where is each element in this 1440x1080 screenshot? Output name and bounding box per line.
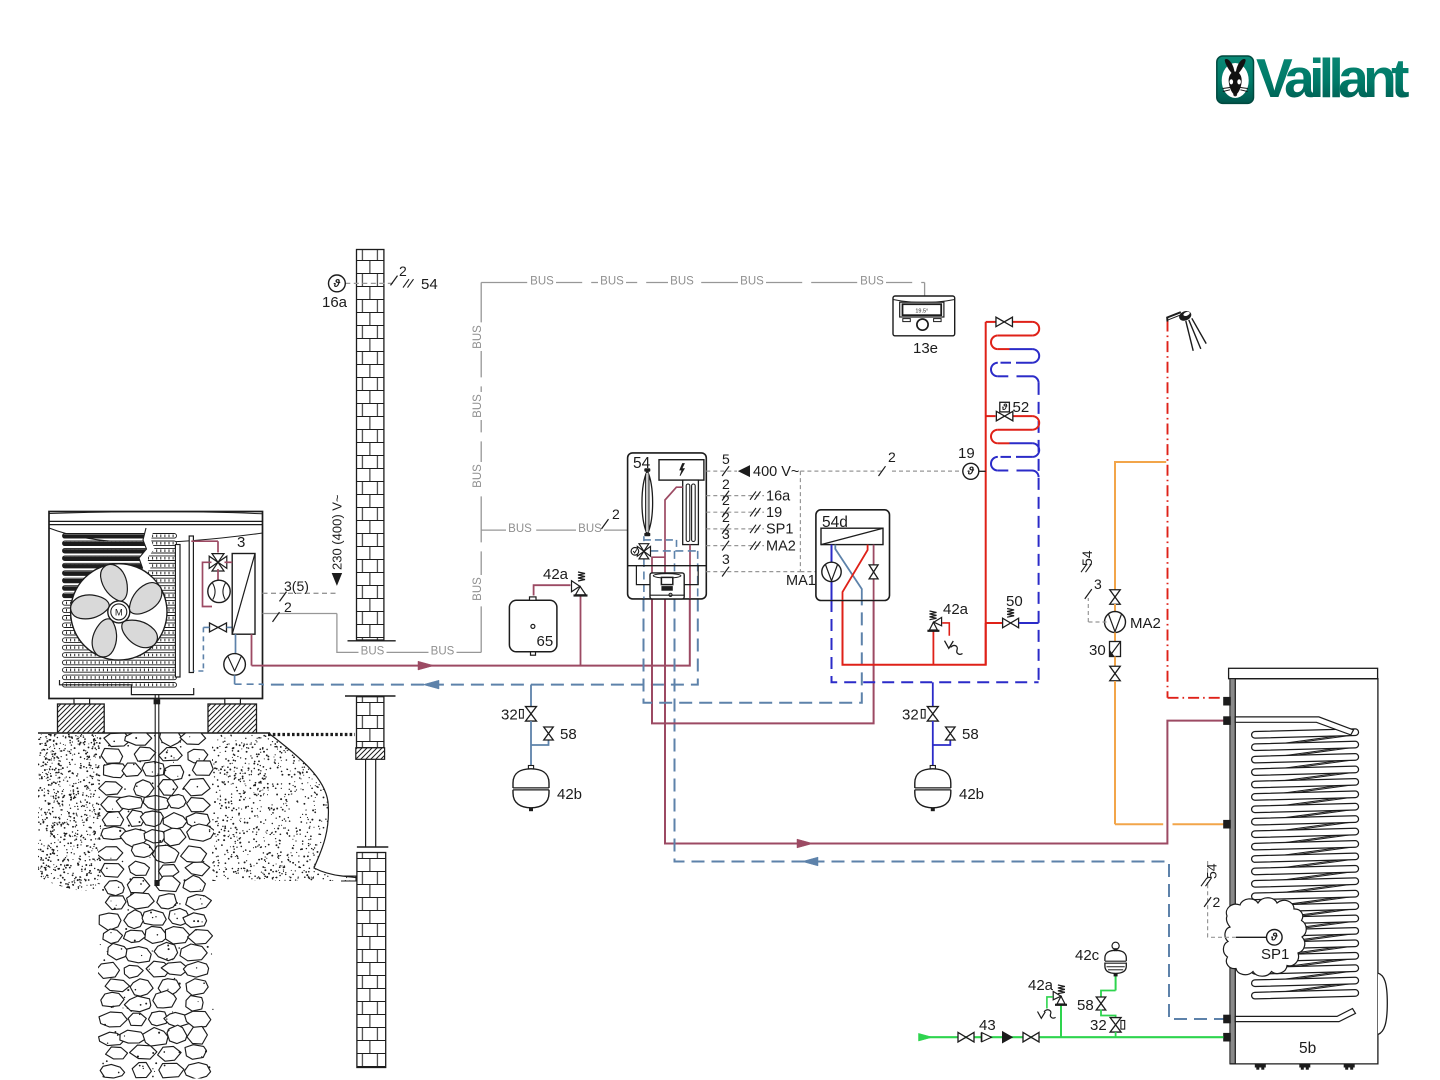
maintenance valve 32 xyxy=(932,682,934,707)
unit feet xyxy=(74,699,90,705)
dirt filter 30 xyxy=(1110,642,1121,657)
safety valve 42a (bottom) xyxy=(1060,1006,1062,1038)
dotted earth strip between heat pump and wall xyxy=(268,733,355,736)
svg-text:3: 3 xyxy=(237,534,245,551)
outdoor temp sensor 16a xyxy=(345,282,395,284)
drain valve 58 xyxy=(531,741,549,746)
shower head xyxy=(1167,312,1181,321)
expansion vessel lens xyxy=(642,471,653,535)
brick wall upper section xyxy=(357,250,384,641)
maintenance valve 32 xyxy=(530,685,532,707)
return from DHW tank (steel dashed long line) xyxy=(675,599,1225,1020)
check valve xyxy=(981,1033,983,1043)
svg-text:MA2: MA2 xyxy=(766,538,796,554)
BUS branch to unit 54 xyxy=(481,529,627,531)
electric heater box with bolt xyxy=(659,460,704,480)
BUS vertical trunk xyxy=(480,283,482,653)
svg-text:ϑ: ϑ xyxy=(967,466,975,478)
svg-text:58: 58 xyxy=(1077,997,1094,1014)
svg-text:42a: 42a xyxy=(1028,977,1054,994)
brick foundation wall below ground xyxy=(357,853,386,1068)
svg-text:BUS: BUS xyxy=(472,325,484,349)
refrigerant circuit inside unit xyxy=(191,540,218,542)
expansion vessel 42b xyxy=(932,745,934,766)
maintenance valve 32 (bottom) xyxy=(1110,1018,1121,1025)
svg-text:BUS: BUS xyxy=(860,276,884,288)
svg-text:MA1: MA1 xyxy=(786,573,816,589)
steel dashed internal piping 54 xyxy=(643,536,645,543)
safety valve 42a (right) xyxy=(932,632,934,665)
flow to DHW tank (maroon long line) xyxy=(665,599,1224,844)
valve in 54d xyxy=(869,565,878,572)
svg-text:58: 58 xyxy=(560,726,577,743)
svg-text:30: 30 xyxy=(1089,642,1106,659)
230 (400) V~ supply arrow xyxy=(332,574,341,585)
sensor pocket cloud xyxy=(1223,898,1306,976)
pump MA1 in 54d xyxy=(822,562,841,581)
expansion vessel 42c xyxy=(1115,976,1117,991)
svg-text:16a: 16a xyxy=(766,489,791,505)
wall footing hatched xyxy=(356,748,385,760)
pipes below 54d xyxy=(832,600,1039,682)
svg-text:19: 19 xyxy=(958,445,975,462)
shut-off valve xyxy=(1023,1032,1031,1042)
svg-text:3: 3 xyxy=(722,526,730,542)
bypass valve 50 xyxy=(986,622,1003,624)
svg-text:Vaillant: Vaillant xyxy=(1256,47,1409,109)
port stubs on right of 54 xyxy=(706,470,737,472)
svg-text:2: 2 xyxy=(284,599,292,615)
svg-text:43: 43 xyxy=(979,1017,996,1034)
svg-text:BUS: BUS xyxy=(670,276,694,288)
DHW cylinder 5b xyxy=(1229,668,1378,678)
54d internal pipes crossing xyxy=(835,545,862,600)
coil inlet pipe from maroon port xyxy=(1235,717,1353,735)
expansion vessel 42b xyxy=(530,745,532,766)
unit top cover lines xyxy=(49,520,263,522)
svg-text:2: 2 xyxy=(722,509,730,525)
svg-text:2: 2 xyxy=(888,449,896,465)
foundation blocks hatched xyxy=(58,704,105,733)
tank ports xyxy=(1223,697,1231,706)
svg-text:BUS: BUS xyxy=(508,523,532,535)
wall box 65 xyxy=(509,600,557,652)
svg-text:2: 2 xyxy=(612,506,620,522)
internal heating coil xyxy=(1264,735,1355,747)
svg-text:BUS: BUS xyxy=(472,577,484,601)
hot water line to shower (red dash-dot) xyxy=(1167,321,1169,698)
brick wall lower section above ground xyxy=(345,695,396,697)
wall footer line xyxy=(348,640,396,642)
svg-text:BUS: BUS xyxy=(361,645,385,657)
svg-text:16a: 16a xyxy=(322,294,348,311)
svg-text:32: 32 xyxy=(1090,1017,1107,1034)
MA1 control line to 54d xyxy=(706,571,800,573)
evaporator finned coil xyxy=(63,534,177,539)
svg-text:42b: 42b xyxy=(557,786,582,803)
svg-text:42a: 42a xyxy=(543,566,569,583)
svg-text:32: 32 xyxy=(902,707,919,724)
svg-text:54: 54 xyxy=(1079,550,1095,566)
svg-text:42b: 42b xyxy=(959,786,984,803)
svg-text:54: 54 xyxy=(421,276,438,293)
svg-text:65: 65 xyxy=(537,633,554,650)
heat exchanger in 54 xyxy=(683,480,699,544)
water side: pump and connections xyxy=(251,634,253,665)
compressor xyxy=(217,569,219,580)
coil outlet pipe to port xyxy=(1235,1009,1355,1022)
svg-text:2: 2 xyxy=(1213,894,1221,910)
expansion valve xyxy=(210,623,219,632)
svg-text:BUS: BUS xyxy=(472,394,484,418)
svg-text:ϑ: ϑ xyxy=(1001,402,1008,412)
svg-text:42c: 42c xyxy=(1075,947,1100,964)
svg-text:230 (400) V~: 230 (400) V~ xyxy=(330,494,345,570)
circulation valve upper xyxy=(1114,589,1116,605)
soil ledge at wall xyxy=(341,876,356,881)
tank sensor SP1 xyxy=(1236,936,1267,938)
svg-text:BUS: BUS xyxy=(740,276,764,288)
svg-text:SP1: SP1 xyxy=(766,522,793,538)
400V / sensor 19 dashed trunk xyxy=(800,470,884,472)
maroon pipe 54 to 54d mixer valve xyxy=(652,599,874,724)
svg-text:3: 3 xyxy=(1094,576,1102,592)
MA2 control cable xyxy=(1088,621,1106,623)
svg-text:M: M xyxy=(115,608,123,619)
plate heat exchanger 3 xyxy=(232,554,255,635)
svg-text:400 V~: 400 V~ xyxy=(753,464,799,480)
SP1 sensor cable xyxy=(1208,936,1236,938)
condensate drain pipe xyxy=(154,695,156,880)
BUS top horizontal to 13e xyxy=(481,282,924,284)
DHW circulation line orange xyxy=(1115,462,1166,589)
drain valve 58 xyxy=(933,741,951,746)
flow sensor 19 xyxy=(963,463,979,479)
54d box xyxy=(816,510,890,601)
svg-text:SP1: SP1 xyxy=(1261,946,1289,963)
svg-text:3(5): 3(5) xyxy=(284,578,309,594)
heating circuit 1 xyxy=(986,321,996,323)
wall foundation shaft xyxy=(365,759,367,847)
heating flow riser red xyxy=(985,322,987,665)
circulation pump MA2 xyxy=(1114,604,1116,612)
svg-text:MA2: MA2 xyxy=(1130,615,1161,632)
cold water supply green xyxy=(919,1036,1224,1038)
bottom module of 54 xyxy=(628,565,707,567)
circulation valve lower xyxy=(1114,657,1116,667)
svg-text:ϑ: ϑ xyxy=(333,278,341,290)
heat pump outdoor unit 3 xyxy=(49,512,263,887)
svg-text:13e: 13e xyxy=(913,340,938,357)
flow direction xyxy=(1003,1032,1013,1043)
svg-text:BUS: BUS xyxy=(530,276,554,288)
4-way valve xyxy=(209,556,218,568)
shut-off valve xyxy=(958,1032,966,1042)
svg-text:19.5°: 19.5° xyxy=(915,309,928,315)
heating circuit 2 with mixing valve 52 xyxy=(986,415,996,417)
heating flow maroon from heat pump to unit 54 xyxy=(263,599,690,666)
svg-text:54: 54 xyxy=(1204,863,1220,879)
heating circuit return dashed vertical xyxy=(1038,383,1040,682)
svg-text:2: 2 xyxy=(722,476,730,492)
small sensor circle at valve xyxy=(631,548,639,556)
svg-text:BUS: BUS xyxy=(472,464,484,488)
eBUS line from heat pump through wall to trunk xyxy=(263,613,337,615)
Vaillant logo xyxy=(1217,47,1409,109)
svg-text:32: 32 xyxy=(501,707,518,724)
mixer rect with diagonal xyxy=(821,528,883,544)
4-way valve in 54 xyxy=(637,546,644,556)
heating return dashed from unit 54 to heat pump xyxy=(263,599,698,685)
inspection flange right xyxy=(1378,973,1387,1034)
svg-text:BUS: BUS xyxy=(578,523,602,535)
svg-text:19: 19 xyxy=(766,505,782,521)
svg-text:2: 2 xyxy=(722,492,730,508)
svg-text:BUS: BUS xyxy=(431,645,455,657)
ground surface line (left of wall) xyxy=(38,732,270,734)
drain valve 58 (bottom) xyxy=(1101,991,1116,998)
svg-text:3: 3 xyxy=(722,551,730,567)
room control 13e xyxy=(893,296,955,336)
fan guard bars xyxy=(175,545,180,678)
svg-text:42a: 42a xyxy=(943,601,969,618)
power cable 3(5) 230(400)V to heat pump xyxy=(263,592,337,594)
svg-text:5b: 5b xyxy=(1299,1040,1316,1057)
safety valve 42a (left) xyxy=(534,585,571,595)
steel dashed pipe 54 to 54d xyxy=(644,599,862,703)
svg-text:50: 50 xyxy=(1006,593,1023,610)
svg-text:BUS: BUS xyxy=(600,276,624,288)
unit 54 box xyxy=(628,453,707,599)
inner floor line and drain xyxy=(60,680,194,695)
svg-text:58: 58 xyxy=(962,726,979,743)
soil boundary curve xyxy=(269,734,356,878)
tank feet xyxy=(1255,1064,1266,1068)
fan with motor M xyxy=(71,564,167,660)
svg-text:5: 5 xyxy=(722,451,730,467)
svg-text:52: 52 xyxy=(1013,399,1030,416)
svg-text:2: 2 xyxy=(399,263,407,279)
svg-text:ϑ: ϑ xyxy=(1270,932,1278,944)
maroon internal piping 54 xyxy=(665,487,683,598)
